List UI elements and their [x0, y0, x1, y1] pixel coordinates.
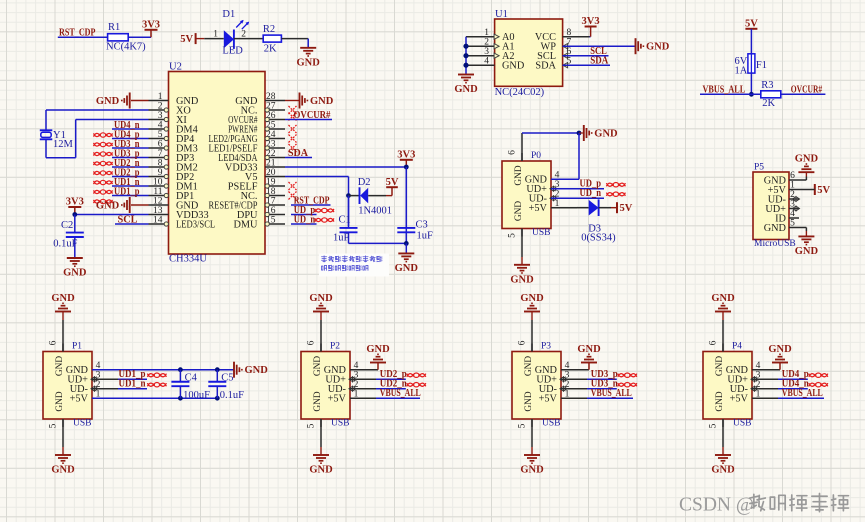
svg-text:7: 7 [158, 149, 163, 159]
svg-text:GND: GND [395, 263, 419, 274]
svg-text:GND: GND [711, 293, 735, 304]
svg-text:GND: GND [711, 465, 735, 476]
svg-text:VBUS_ALL: VBUS_ALL [591, 388, 632, 399]
svg-text:5: 5 [307, 423, 317, 428]
svg-text:UD1_n: UD1_n [119, 379, 146, 390]
svg-text:GND: GND [764, 223, 787, 234]
svg-text:1: 1 [213, 30, 218, 40]
svg-text:5: 5 [49, 423, 59, 428]
svg-text:+5V: +5V [730, 394, 749, 405]
svg-text:GND: GND [514, 165, 524, 185]
svg-text:U2: U2 [169, 62, 182, 73]
svg-text:SDA: SDA [590, 56, 608, 67]
svg-text:GND: GND [577, 344, 601, 355]
svg-text:UD_n: UD_n [294, 214, 316, 225]
svg-text:CH334U: CH334U [169, 254, 207, 265]
svg-text:LED: LED [222, 46, 243, 57]
svg-text:GND: GND [96, 201, 120, 212]
svg-text:GND: GND [514, 201, 524, 221]
svg-text:100uF: 100uF [183, 390, 210, 401]
svg-text:2K: 2K [762, 98, 775, 109]
svg-text:4: 4 [484, 57, 489, 67]
svg-text:20: 20 [266, 168, 276, 178]
svg-text:5: 5 [508, 233, 518, 238]
svg-text:P1: P1 [72, 341, 82, 351]
svg-text:GND: GND [795, 246, 819, 257]
svg-text:UD_n: UD_n [580, 188, 602, 199]
svg-text:+5V: +5V [539, 394, 558, 405]
svg-text:8: 8 [158, 159, 163, 169]
svg-text:1A: 1A [735, 66, 748, 77]
svg-text:D2: D2 [358, 177, 371, 188]
svg-text:USB: USB [73, 419, 91, 429]
svg-text:C3: C3 [416, 220, 428, 231]
svg-text:3: 3 [158, 111, 163, 121]
svg-text:P0: P0 [531, 151, 541, 161]
svg-text:5: 5 [790, 219, 795, 229]
svg-text:GND: GND [646, 42, 670, 53]
svg-text:6: 6 [49, 340, 59, 345]
svg-text:GND: GND [510, 274, 534, 285]
svg-text:12M: 12M [53, 139, 74, 150]
svg-text:11: 11 [153, 187, 162, 197]
svg-text:6: 6 [518, 340, 528, 345]
svg-text:GND: GND [96, 96, 120, 107]
svg-text:GND: GND [454, 84, 478, 95]
svg-text:OVCUR#: OVCUR# [791, 85, 823, 96]
svg-text:GND: GND [520, 293, 544, 304]
svg-text:1uF: 1uF [333, 233, 350, 244]
svg-text:1: 1 [756, 389, 761, 399]
svg-text:3V3: 3V3 [582, 16, 600, 27]
svg-text:3V3: 3V3 [142, 19, 160, 30]
svg-text:GND: GND [245, 365, 269, 376]
svg-text:GND: GND [55, 391, 65, 411]
svg-text:GND: GND [715, 391, 725, 411]
svg-text:4: 4 [790, 209, 795, 219]
svg-text:5: 5 [518, 423, 528, 428]
svg-text:P3: P3 [541, 341, 551, 351]
svg-text:1: 1 [565, 389, 570, 399]
svg-text:LED3/SCL: LED3/SCL [176, 219, 215, 230]
svg-text:GND: GND [715, 356, 725, 376]
svg-text:GND: GND [51, 465, 75, 476]
svg-text:0.1uF: 0.1uF [220, 390, 244, 401]
svg-text:R3: R3 [761, 80, 773, 91]
svg-text:GND: GND [795, 154, 819, 165]
svg-text:GND: GND [297, 57, 321, 68]
svg-text:GND: GND [524, 356, 534, 376]
svg-text:NC(4K7): NC(4K7) [106, 42, 146, 53]
svg-text:5V: 5V [745, 18, 758, 29]
svg-text:6: 6 [790, 171, 795, 181]
svg-text:+5V: +5V [529, 203, 548, 214]
svg-text:SDA: SDA [288, 148, 309, 159]
svg-text:SCL: SCL [118, 215, 138, 226]
svg-text:P5: P5 [754, 163, 764, 173]
svg-text:6: 6 [158, 140, 163, 150]
svg-text:P4: P4 [732, 341, 742, 351]
svg-text:USB: USB [733, 419, 751, 429]
svg-text:P2: P2 [330, 341, 340, 351]
svg-text:4: 4 [158, 121, 163, 131]
svg-text:2: 2 [484, 38, 489, 48]
svg-text:28: 28 [266, 92, 276, 102]
svg-text:VBUS_ALL: VBUS_ALL [703, 85, 746, 96]
svg-text:0(SS34): 0(SS34) [581, 233, 616, 244]
svg-text:GND: GND [51, 293, 75, 304]
svg-text:2: 2 [158, 102, 163, 112]
svg-text:1: 1 [555, 199, 560, 209]
svg-text:USB: USB [542, 419, 560, 429]
svg-text:21: 21 [266, 159, 276, 169]
svg-text:GND: GND [768, 344, 792, 355]
svg-text:USB: USB [532, 228, 550, 238]
svg-text:GND: GND [63, 268, 87, 279]
svg-text:UD1_p: UD1_p [114, 186, 140, 197]
svg-text:1uF: 1uF [417, 231, 434, 242]
svg-text:1N4001: 1N4001 [358, 206, 392, 217]
svg-text:1: 1 [158, 92, 163, 102]
svg-text:VBUS_ALL: VBUS_ALL [782, 388, 823, 399]
svg-text:C2: C2 [61, 220, 73, 231]
svg-text:8: 8 [567, 28, 572, 38]
svg-text:GND: GND [309, 293, 333, 304]
svg-text:C1: C1 [339, 215, 351, 226]
svg-text:1: 1 [484, 28, 489, 38]
svg-text:9: 9 [158, 168, 163, 178]
svg-text:D1: D1 [222, 9, 235, 20]
svg-text:0.1uF: 0.1uF [53, 239, 77, 250]
svg-text:U1: U1 [495, 9, 508, 20]
svg-text:+5V: +5V [70, 394, 89, 405]
svg-text:F1: F1 [756, 60, 767, 71]
svg-text:GND: GND [309, 465, 333, 476]
svg-text:6: 6 [508, 150, 518, 155]
svg-text:OVCUR#: OVCUR# [294, 110, 332, 121]
svg-text:SDA: SDA [535, 61, 556, 72]
svg-text:3V3: 3V3 [397, 149, 415, 160]
svg-text:5V: 5V [180, 34, 193, 45]
svg-text:14: 14 [153, 216, 163, 226]
svg-text:1: 1 [790, 181, 795, 191]
svg-text:GND: GND [502, 61, 525, 72]
svg-text:10: 10 [153, 178, 163, 188]
svg-text:MicroUSB: MicroUSB [754, 239, 796, 249]
svg-text:C4: C4 [185, 373, 198, 384]
svg-text:6: 6 [307, 340, 317, 345]
svg-text:5V: 5V [620, 203, 633, 214]
svg-text:DMU: DMU [233, 219, 258, 230]
svg-text:6: 6 [709, 340, 719, 345]
svg-text:GND: GND [524, 391, 534, 411]
svg-text:+5V: +5V [328, 394, 347, 405]
svg-text:GND: GND [310, 96, 334, 107]
svg-text:GND: GND [313, 391, 323, 411]
svg-text:CSDN @: CSDN @ [679, 495, 754, 516]
svg-text:VBUS_ALL: VBUS_ALL [380, 388, 421, 399]
svg-text:NC(24C02): NC(24C02) [495, 87, 545, 98]
svg-text:GND: GND [366, 344, 390, 355]
svg-text:13: 13 [153, 206, 163, 216]
svg-text:GND: GND [313, 356, 323, 376]
svg-text:R1: R1 [108, 22, 120, 33]
svg-text:5: 5 [158, 130, 163, 140]
svg-text:1: 1 [354, 389, 359, 399]
svg-text:C5: C5 [221, 373, 233, 384]
svg-text:R2: R2 [263, 24, 275, 35]
svg-text:5: 5 [709, 423, 719, 428]
svg-text:3V3: 3V3 [66, 197, 84, 208]
svg-text:12: 12 [153, 197, 163, 207]
svg-text:5V: 5V [817, 185, 830, 196]
svg-text:3: 3 [484, 47, 489, 57]
svg-text:5V: 5V [386, 177, 399, 188]
svg-text:GND: GND [55, 356, 65, 376]
svg-text:2K: 2K [264, 44, 277, 55]
svg-text:GND: GND [520, 465, 544, 476]
svg-text:GND: GND [594, 129, 618, 140]
svg-text:USB: USB [331, 419, 349, 429]
